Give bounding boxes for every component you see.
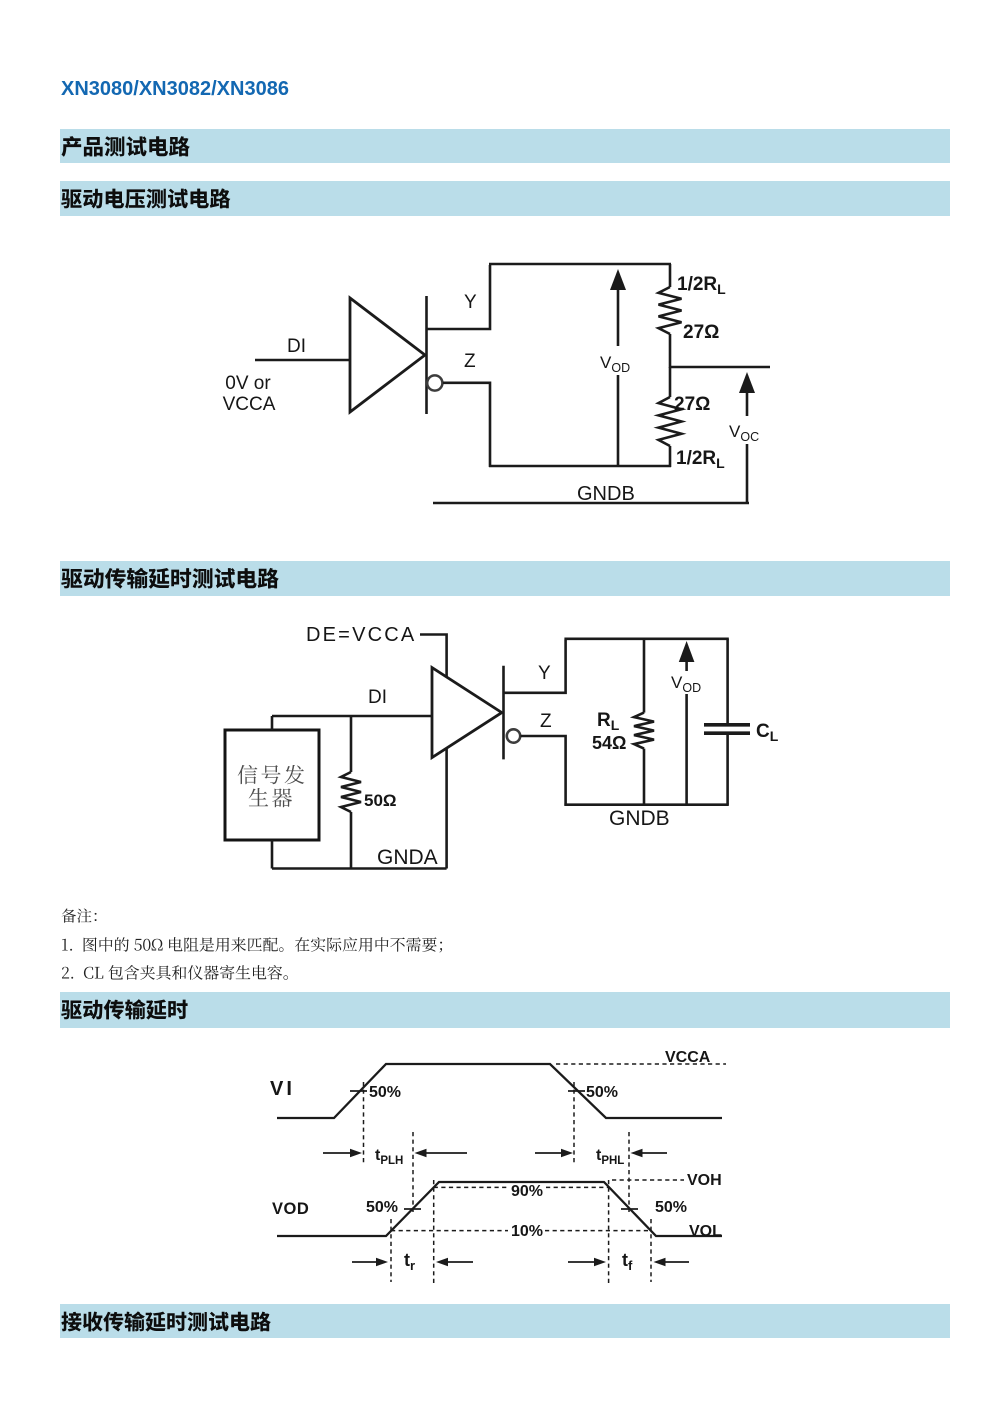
svg-text:50Ω: 50Ω (364, 791, 397, 810)
svg-text:50%: 50% (369, 1084, 401, 1101)
resistor RL 54ohm (634, 639, 654, 805)
svg-text:tPLH: tPLH (375, 1147, 403, 1167)
label 50% VOD rise (366, 1199, 398, 1216)
banner heading 产品测试电路 (60, 129, 950, 163)
label GNDB (577, 483, 635, 505)
dashed line B (412, 1132, 414, 1212)
svg-text:27Ω: 27Ω (674, 394, 710, 415)
arrow VOD (610, 269, 626, 466)
label tr (404, 1250, 415, 1273)
label tPLH (375, 1147, 403, 1167)
svg-text:90%: 90% (511, 1183, 543, 1200)
label CL (756, 721, 779, 744)
inversion bubble (427, 375, 442, 390)
svg-text:DI: DI (368, 687, 387, 708)
label GNDA (377, 846, 438, 869)
wire Y output (428, 265, 491, 329)
svg-text:VOC: VOC (729, 422, 759, 444)
label RL (597, 710, 620, 733)
wire box bottom stub (271, 840, 274, 869)
label DI 2 (368, 687, 387, 708)
dashed line E (390, 1219, 392, 1282)
wire top rail (489, 263, 671, 266)
output bar 2 (502, 666, 505, 760)
svg-text:54Ω: 54Ω (592, 733, 626, 753)
wire Z output 2 (521, 736, 566, 806)
banner heading 接收传输延时测试电路 (60, 1304, 950, 1338)
svg-text:tf: tf (622, 1250, 633, 1273)
svg-text:Z: Z (540, 711, 552, 732)
tick VI fall 50% (568, 1090, 585, 1092)
dashed line A (363, 1082, 365, 1165)
resistor 50ohm (341, 772, 361, 869)
label 50% VI rise (369, 1084, 401, 1101)
svg-text:VI: VI (270, 1078, 295, 1100)
label DE=VCCA (306, 624, 416, 646)
dashed line C (573, 1082, 575, 1165)
wire Z output (443, 383, 490, 467)
svg-text:RL: RL (597, 710, 620, 733)
label Z 2 (540, 711, 552, 732)
dashed line 90% (434, 1186, 609, 1188)
label VI (270, 1078, 295, 1100)
svg-text:1/2RL: 1/2RL (676, 448, 725, 471)
label 1/2RL lower (676, 448, 725, 471)
svg-text:50%: 50% (366, 1199, 398, 1216)
dashed line H (650, 1219, 652, 1282)
dashed line VOH level (612, 1179, 684, 1181)
wire bottom rail (489, 465, 671, 468)
output bar (425, 296, 428, 414)
arrow tPHL right (631, 1149, 668, 1157)
arrow tPLH right (415, 1149, 468, 1157)
svg-text:DI: DI (287, 336, 306, 357)
dashed line VCCA level (556, 1063, 726, 1065)
dashed line G (608, 1180, 610, 1284)
note heading 备注 (61, 903, 109, 929)
dashed line 10% (391, 1230, 651, 1232)
label VOH (687, 1172, 722, 1189)
svg-text:27Ω: 27Ω (683, 322, 719, 343)
capacitor CL (704, 639, 750, 805)
arrow VOC (739, 372, 755, 503)
svg-text:tr: tr (404, 1250, 415, 1273)
label 54ohm (592, 733, 626, 753)
wire top rail 2 (564, 637, 728, 640)
banner heading 驱动电压测试电路 (60, 181, 950, 216)
wire bottom rail 2 (564, 803, 728, 806)
waveform VI (277, 1064, 722, 1118)
label Y 2 (538, 663, 551, 684)
arrow tf right (654, 1258, 690, 1266)
banner heading 驱动传输延时测试电路 (60, 561, 950, 596)
wire DI input (255, 359, 350, 362)
svg-text:GNDA: GNDA (377, 846, 438, 869)
svg-text:VOH: VOH (687, 1172, 722, 1189)
node junction line (670, 366, 770, 369)
label 信号发生器 line1 (237, 765, 309, 791)
label tf (622, 1250, 633, 1273)
wire GNDA ground rail (272, 867, 447, 870)
label tPHL (596, 1147, 624, 1167)
wire 50ohm stub (350, 716, 353, 772)
label 27ohm lower (674, 394, 710, 415)
svg-text:GNDB: GNDB (577, 483, 635, 505)
tick VOD fall 50% (621, 1208, 638, 1210)
svg-text:0V or: 0V or (225, 373, 271, 394)
wire DI input 2 (272, 715, 433, 718)
svg-text:50%: 50% (586, 1084, 618, 1101)
svg-text:DE=VCCA: DE=VCCA (306, 624, 416, 646)
wire box top stub (271, 716, 274, 730)
arrow tf left (568, 1258, 606, 1266)
wire Y output 2 (504, 640, 566, 693)
label 50% VI fall (586, 1084, 618, 1101)
svg-text:VCCA: VCCA (665, 1049, 711, 1066)
signal generator box (225, 730, 319, 840)
banner heading 驱动传输延时 (60, 992, 950, 1028)
arrow VOD 2 (679, 641, 695, 805)
dashed line F (433, 1180, 435, 1284)
svg-text:GNDB: GNDB (609, 807, 670, 830)
label 10% (511, 1223, 543, 1240)
label VOL (689, 1223, 722, 1240)
svg-text:1/2RL: 1/2RL (677, 274, 726, 297)
tick VOD rise 50% (404, 1208, 421, 1210)
note line 1 (61, 932, 455, 958)
label VOD wave (272, 1200, 309, 1218)
svg-text:tPHL: tPHL (596, 1147, 624, 1167)
inversion bubble 2 (507, 729, 520, 742)
label VOC (729, 422, 759, 444)
label VCCA (665, 1049, 711, 1066)
resistor lower 27ohm 1/2RL (659, 367, 682, 467)
resistor upper 1/2RL 27ohm (659, 264, 682, 368)
wire DE enable (420, 635, 447, 869)
label Z (464, 351, 476, 372)
dashed line D (628, 1132, 630, 1212)
label DI (287, 336, 306, 357)
waveform VOD (277, 1182, 722, 1236)
label Y (464, 292, 477, 313)
arrow tr left (352, 1258, 388, 1266)
document header part number (61, 78, 289, 101)
svg-text:Z: Z (464, 351, 476, 372)
svg-text:VOD: VOD (671, 673, 701, 695)
svg-text:CL: CL (756, 721, 779, 744)
wire GNDB ground rail (433, 502, 749, 505)
svg-text:Y: Y (464, 292, 477, 313)
arrow tPHL left (535, 1149, 573, 1157)
label 50ohm (364, 791, 397, 810)
svg-text:VCCA: VCCA (223, 394, 276, 415)
svg-text:50%: 50% (655, 1199, 687, 1216)
tick VI rise 50% (350, 1090, 367, 1092)
label 信号发生器 line2 (248, 788, 297, 814)
label 50% VOD fall (655, 1199, 687, 1216)
svg-text:VOD: VOD (272, 1200, 309, 1218)
svg-text:VOD: VOD (600, 353, 630, 375)
svg-text:10%: 10% (511, 1223, 543, 1240)
op-amp driver buffer U1 (350, 298, 425, 412)
label VOD (600, 353, 630, 375)
svg-text:Y: Y (538, 663, 551, 684)
label 27ohm upper (683, 322, 719, 343)
note line 2 (61, 960, 300, 986)
label 0V or VCCA (223, 373, 276, 415)
label VOD 2 (671, 673, 701, 695)
svg-text:VOL: VOL (689, 1223, 722, 1240)
op-amp driver buffer U2 (432, 668, 502, 758)
label 90% (511, 1183, 543, 1200)
arrow tr right (436, 1258, 473, 1266)
label 1/2RL upper (677, 274, 726, 297)
arrow tPLH left (323, 1149, 362, 1157)
label GNDB 2 (609, 807, 670, 830)
